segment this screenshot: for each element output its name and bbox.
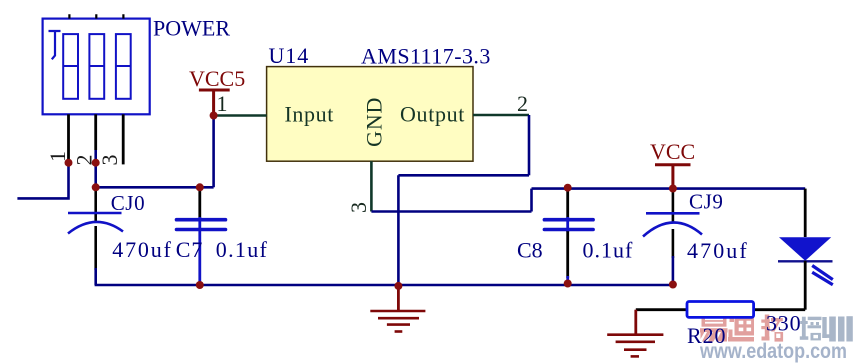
wire gnd pin horizontal [371, 210, 531, 213]
connector pin 3 lead [122, 114, 125, 164]
capacitor C8 [517, 188, 633, 285]
wire VCC5 vertical [212, 116, 215, 188]
svg-text:POWER: POWER [153, 15, 230, 40]
wire pin1 stub [17, 163, 68, 199]
power symbol VCC [650, 139, 695, 189]
svg-text:2: 2 [517, 91, 528, 116]
connector key marker T [49, 31, 61, 59]
junction node C7 top [196, 183, 204, 191]
capacitor CJ9 [643, 189, 749, 286]
junction CJ9 bottom [669, 281, 677, 289]
svg-text:0.1uf: 0.1uf [583, 238, 634, 263]
wm char tuo [761, 315, 783, 342]
LED D1 [778, 189, 833, 310]
capacitor CJ0 [68, 187, 173, 285]
junction C7 bottom [196, 281, 204, 289]
wm char di [728, 317, 754, 342]
svg-text:CJ9: CJ9 [689, 190, 723, 214]
power symbol VCC5 [189, 66, 245, 116]
connector pin 2 lead [94, 114, 97, 150]
svg-text:U14: U14 [269, 43, 310, 68]
svg-text:Output: Output [400, 102, 465, 127]
svg-text:AMS1117-3.3: AMS1117-3.3 [361, 44, 491, 69]
svg-text:C8: C8 [517, 238, 543, 263]
svg-text:1: 1 [217, 91, 228, 116]
svg-text:3: 3 [97, 155, 122, 166]
junction pin1 [65, 159, 73, 167]
junction C8 bottom [564, 280, 572, 288]
regulator U14 body [267, 67, 473, 162]
svg-text:C7: C7 [176, 237, 204, 262]
wire ground rail bottom [95, 284, 673, 287]
ground symbol 2 [607, 310, 663, 357]
connector top ticks [69, 14, 123, 18]
wm char di white holes [739, 321, 751, 332]
wire node horizontal to VCC5 column [96, 186, 214, 189]
connector pin 1 lead [67, 114, 70, 162]
junction node CJ0 [92, 183, 100, 191]
junction C8 top [564, 184, 572, 192]
wire output horizontal [398, 174, 529, 177]
svg-text:0.1uf: 0.1uf [216, 237, 268, 262]
U14 pin 2 wire (Output, green) [473, 114, 529, 117]
wm char tuo white hole [776, 334, 780, 338]
svg-text:VCC5: VCC5 [189, 66, 245, 91]
wm char yi white cuts [701, 318, 724, 341]
junction VCC/CJ9 [669, 185, 677, 193]
svg-text:3: 3 [346, 202, 371, 213]
connector pin contact 2 [89, 34, 104, 99]
wire output down [528, 115, 531, 175]
resistor R20 [636, 302, 805, 349]
svg-text:470uf: 470uf [112, 237, 172, 262]
svg-text:330: 330 [766, 311, 801, 336]
wm char xun [822, 316, 853, 341]
wire pin2 to node [94, 150, 97, 187]
U14 pin 3 lead (GND, green) [370, 161, 373, 211]
svg-text:CJ0: CJ0 [111, 191, 145, 215]
wire VCC rail horizontal [532, 187, 806, 190]
watermark [699, 315, 853, 363]
U14 pin 1 wire (Input, green) [214, 114, 267, 117]
wm char pei white hole [813, 335, 818, 338]
svg-text:R20: R20 [687, 323, 726, 348]
wm char yi [700, 315, 728, 341]
junction VCC5 [210, 112, 218, 120]
junction ground rail [394, 282, 402, 290]
connector pin contact 1 [63, 34, 78, 99]
svg-text:GND: GND [361, 97, 386, 147]
connector pin contact 3 [116, 34, 131, 99]
connector POWER box [43, 19, 150, 115]
svg-text:Input: Input [285, 102, 334, 127]
svg-text:470uf: 470uf [687, 238, 749, 263]
wm char pei [800, 317, 822, 341]
junction pin2 [92, 159, 100, 167]
capacitor C7 [176, 187, 268, 285]
wire gnd column [397, 175, 400, 286]
ground symbol 1 [370, 286, 425, 332]
wire jog up [530, 189, 533, 212]
svg-text:VCC: VCC [650, 139, 695, 164]
